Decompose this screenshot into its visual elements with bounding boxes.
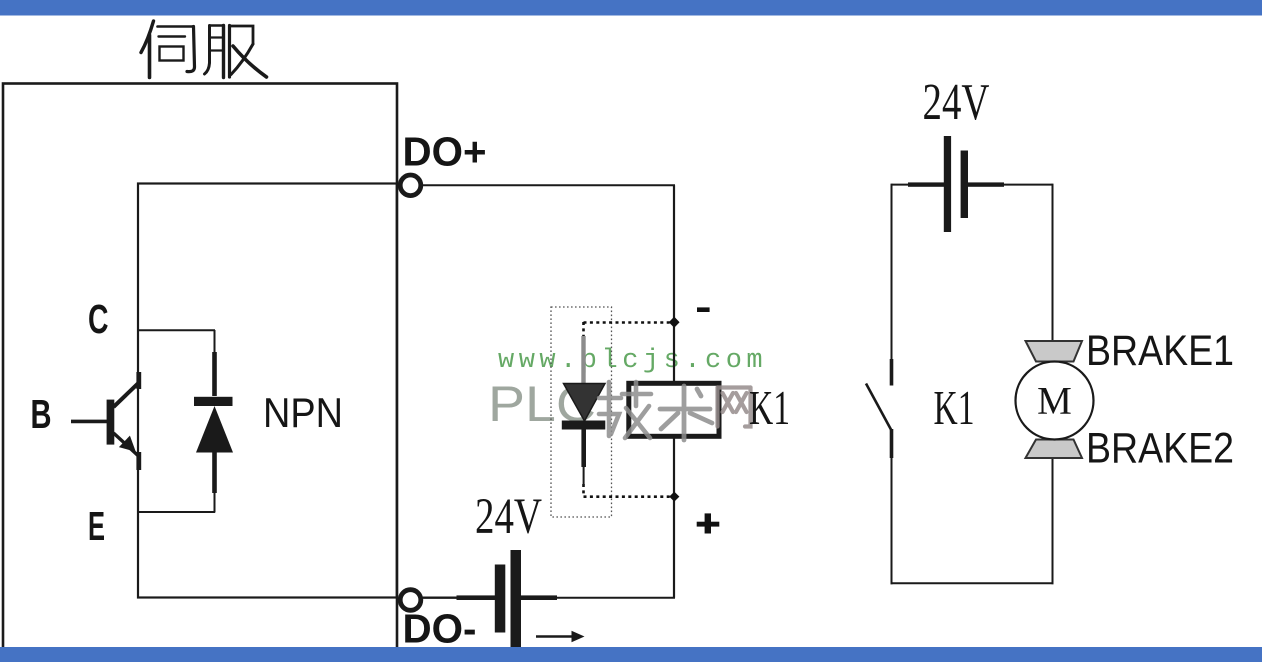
svg-text:DO-: DO-: [403, 606, 477, 652]
svg-text:DO+: DO+: [403, 129, 487, 175]
svg-text:www.plcjs.com: www.plcjs.com: [498, 346, 767, 376]
svg-text:BRAKE1: BRAKE1: [1086, 327, 1234, 375]
svg-text:24V: 24V: [923, 74, 990, 131]
svg-text:M: M: [1037, 379, 1072, 422]
svg-text:C: C: [88, 296, 109, 342]
svg-text:E: E: [88, 503, 105, 549]
svg-text:K1: K1: [934, 380, 975, 435]
svg-text:NPN: NPN: [263, 389, 343, 436]
svg-text:B: B: [31, 391, 52, 437]
svg-text:24V: 24V: [475, 489, 542, 545]
svg-text:BRAKE2: BRAKE2: [1086, 425, 1234, 473]
svg-text:K1: K1: [749, 380, 790, 435]
